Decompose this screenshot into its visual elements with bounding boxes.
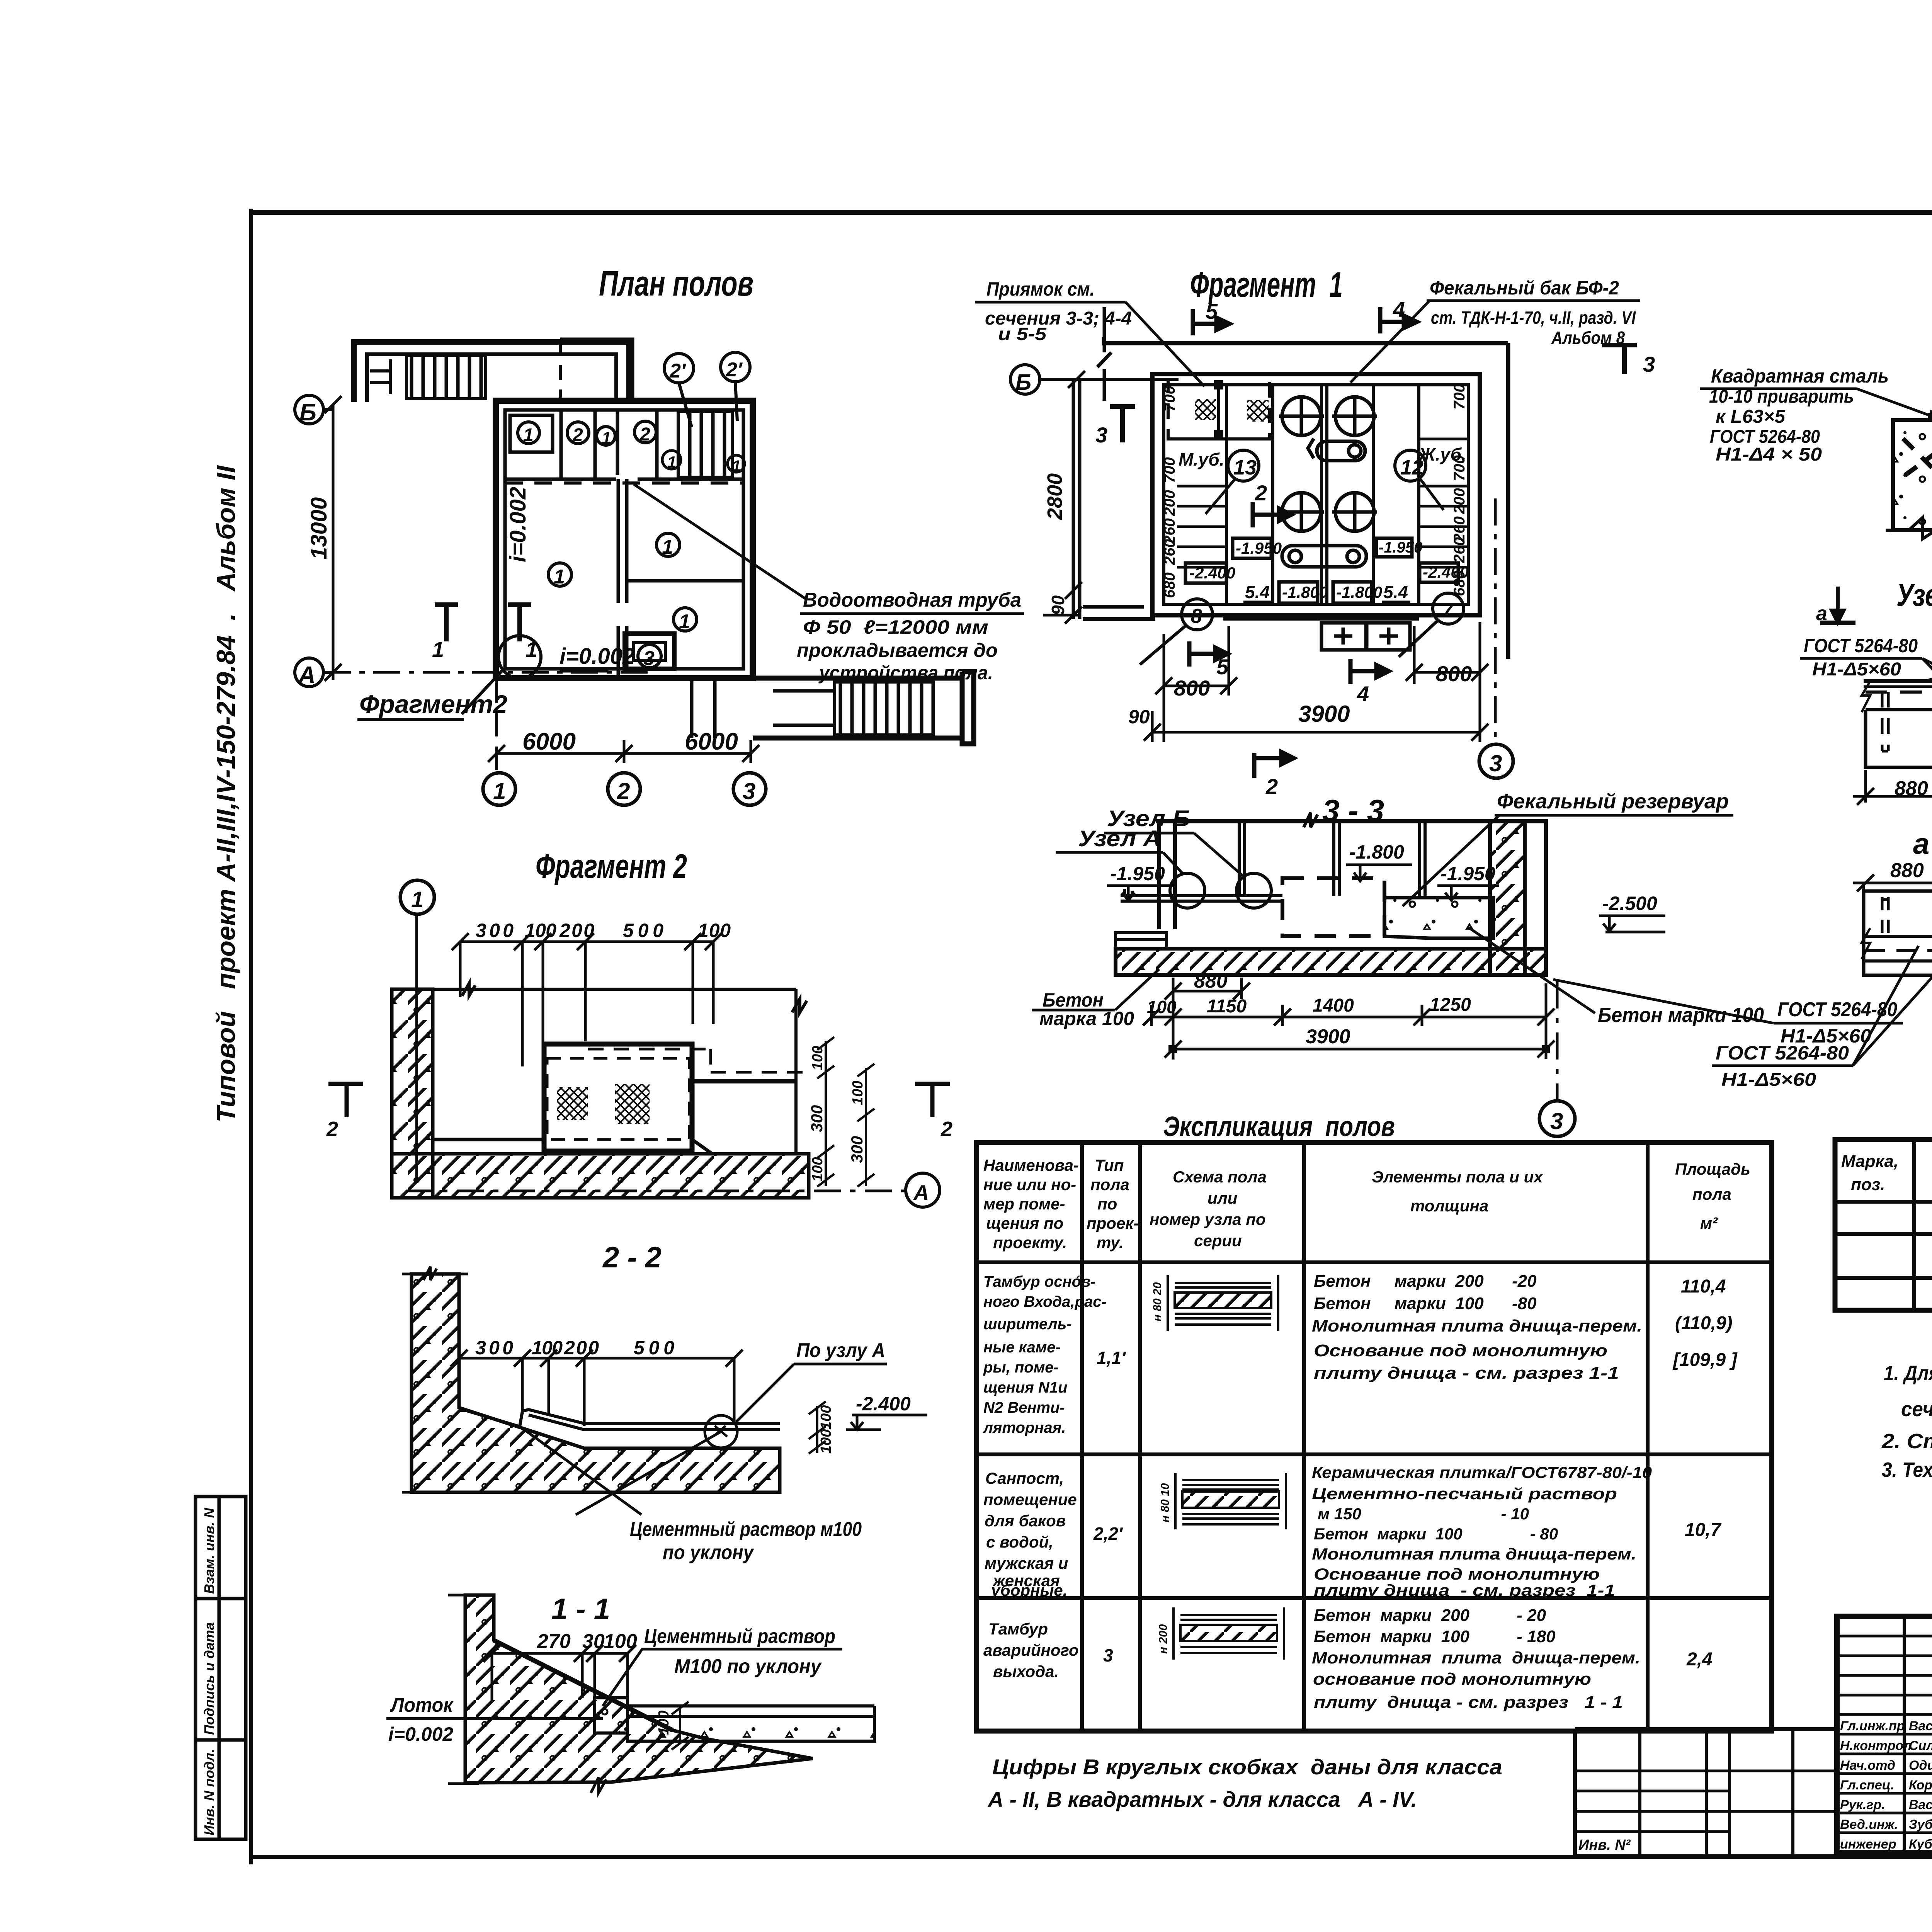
3-3 axis circle 3 xyxy=(1556,981,1559,1100)
svg-text:мужская и: мужская и xyxy=(985,1554,1068,1572)
svg-text:Фекальный резервуар: Фекальный резервуар xyxy=(1497,790,1729,813)
svg-text:N2 Венти-: N2 Венти- xyxy=(983,1399,1065,1416)
axis circle 1 fragment2 xyxy=(400,880,434,914)
left building wall xyxy=(1073,379,1080,619)
svg-text:Тамбур осно́в-: Тамбур осно́в- xyxy=(983,1273,1096,1290)
svg-text:i=0.002: i=0.002 xyxy=(505,487,531,562)
pit dashed box xyxy=(547,1058,689,1139)
pit divider xyxy=(1217,382,1220,437)
svg-text:н 80 20: н 80 20 xyxy=(1151,1282,1164,1321)
right horizontal partition xyxy=(627,579,743,583)
uzel A circle 3-3 xyxy=(1170,873,1205,908)
svg-text:100: 100 xyxy=(656,1711,672,1735)
svg-text:Гл.инж.пр: Гл.инж.пр xyxy=(1840,1719,1905,1733)
pit dashed rect xyxy=(1168,378,1270,439)
svg-text:1: 1 xyxy=(554,566,565,588)
svg-text:инженер: инженер xyxy=(1840,1837,1896,1852)
svg-text:по: по xyxy=(1097,1195,1117,1213)
level box -1.800 b xyxy=(1333,582,1372,603)
svg-text:Одинаков: Одинаков xyxy=(1909,1758,1932,1773)
fragment left dim 2800 xyxy=(1043,371,1085,624)
axis B line fragment xyxy=(1040,378,1179,381)
svg-text:щения N1и: щения N1и xyxy=(983,1379,1067,1396)
svg-text:1150: 1150 xyxy=(1207,996,1247,1017)
1-1 curb xyxy=(595,1698,628,1733)
svg-text:2: 2 xyxy=(1255,481,1267,505)
svg-text:ГОСТ 5264-80: ГОСТ 5264-80 xyxy=(1804,635,1918,656)
stall dividers left strip xyxy=(1177,439,1226,567)
svg-text:м²: м² xyxy=(1700,1214,1718,1232)
svg-text:3: 3 xyxy=(743,778,755,804)
section mark 1 left xyxy=(435,605,458,641)
inner partitions verticals xyxy=(1226,385,1419,604)
svg-text:3: 3 xyxy=(1095,423,1107,447)
svg-text:2′: 2′ xyxy=(669,360,687,382)
pit hatch patch 2 xyxy=(1247,400,1269,422)
svg-text:Инв. N подл.: Инв. N подл. xyxy=(201,1749,217,1835)
svg-text:ст. ТДК-Н-1-70, ч.II, разд. VI: ст. ТДК-Н-1-70, ч.II, разд. VI xyxy=(1431,308,1636,328)
svg-text:Фрагмент 1: Фрагмент 1 xyxy=(1190,265,1343,304)
svg-text:700: 700 xyxy=(1161,386,1178,412)
svg-text:ного Входа,рас-: ного Входа,рас- xyxy=(983,1293,1107,1310)
svg-text:1′: 1′ xyxy=(732,457,745,474)
svg-text:Фрагмент 2: Фрагмент 2 xyxy=(536,847,687,885)
svg-text:2,4: 2,4 xyxy=(1686,1649,1713,1670)
axis circle B xyxy=(295,395,333,424)
svg-text:-1.950: -1.950 xyxy=(1236,539,1282,557)
svg-text:1400: 1400 xyxy=(1313,995,1354,1016)
po uzlu A circle xyxy=(705,1415,737,1448)
svg-text:серии: серии xyxy=(1194,1231,1242,1250)
leaders cement 2-2 xyxy=(522,1428,721,1515)
svg-text:и 5-5: и 5-5 xyxy=(998,324,1047,344)
svg-text:Тамбур: Тамбур xyxy=(988,1620,1048,1638)
svg-text:Кубышкина: Кубышкина xyxy=(1909,1837,1932,1852)
svg-text:2800: 2800 xyxy=(1043,473,1066,520)
svg-text:Монолитная плита днища-перем: Монолитная плита днища-перем. xyxy=(1312,1648,1640,1667)
pit grate 2 xyxy=(615,1084,650,1124)
plan stairs top right xyxy=(678,412,732,477)
level box -2.400 left xyxy=(1185,563,1226,583)
svg-text:-1.800: -1.800 xyxy=(1349,841,1404,863)
eksplikaciya row1 col1 xyxy=(983,1273,1107,1436)
svg-text:щения по: щения по xyxy=(986,1214,1063,1232)
svg-text:Бетон марки 100 - 1: Бетон марки 100 - 180 xyxy=(1314,1627,1556,1646)
fragment2 left wall hatched xyxy=(392,989,433,1198)
svg-text:Керамическая плитка/ГОСТ6787-8: Керамическая плитка/ГОСТ6787-80/-10 xyxy=(1312,1463,1652,1481)
svg-text:-1.800: -1.800 xyxy=(1336,583,1382,601)
svg-text:(110,9): (110,9) xyxy=(1675,1313,1733,1333)
svg-text:аварийного: аварийного xyxy=(983,1641,1079,1659)
svg-text:100: 100 xyxy=(850,1081,866,1105)
level box -1.800 a xyxy=(1279,582,1318,603)
svg-text:уборные.: уборные. xyxy=(990,1581,1067,1599)
floor edge lines xyxy=(433,1139,712,1154)
top band room circles xyxy=(518,421,656,445)
svg-text:Бетон марки 100: Бетон марки 100 - 80 xyxy=(1314,1525,1558,1543)
svg-text:для баков: для баков xyxy=(985,1512,1066,1530)
upper tambour outline xyxy=(354,342,629,402)
square bar xyxy=(1930,410,1932,420)
svg-text:Цифры В круглых скобках даны: Цифры В круглых скобках даны для класса xyxy=(992,1755,1502,1779)
3-3 top wall line xyxy=(1156,813,1546,929)
svg-text:2,2′: 2,2′ xyxy=(1093,1524,1123,1544)
fragment2 right dim chain 1 xyxy=(817,1037,874,1187)
signature rows xyxy=(1840,1719,1932,1852)
svg-text:1. Для типов полов 1′, 2′: 1. Для типов полов 1′, 2′ толщину слоя б… xyxy=(1884,1362,1932,1385)
svg-text:основание под монолитную: основание под монолитную xyxy=(1313,1670,1591,1689)
1-1 break marks xyxy=(448,1595,606,1793)
svg-text:а - а: а - а xyxy=(1913,828,1932,861)
svg-text:Васильев: Васильев xyxy=(1909,1719,1932,1733)
main outer wall xyxy=(496,401,753,678)
section flag 3 right xyxy=(1602,345,1637,374)
svg-text:5.4: 5.4 xyxy=(1245,582,1270,602)
top cells partition row xyxy=(505,478,743,481)
svg-text:По узлу А: По узлу А xyxy=(796,1339,885,1362)
svg-text:по уклону: по уклону xyxy=(663,1541,755,1564)
svg-text:4: 4 xyxy=(1393,297,1405,321)
svg-text:Зубова: Зубова xyxy=(1909,1817,1932,1832)
svg-text:Н1-Δ5×60: Н1-Δ5×60 xyxy=(1781,1025,1871,1047)
svg-text:-1.950: -1.950 xyxy=(1379,539,1422,556)
svg-text:Узел Б: Узел Б xyxy=(1896,578,1932,613)
svg-text:1250: 1250 xyxy=(1430,995,1471,1015)
eksplikaciya row3 col1 xyxy=(983,1620,1079,1680)
leaders GOST uzel B xyxy=(1922,658,1932,677)
svg-text:1: 1 xyxy=(411,887,423,912)
svg-text:с водой,: с водой, xyxy=(986,1533,1053,1551)
frame left border line xyxy=(249,209,253,1864)
section mark 2 right fragment2 xyxy=(915,1084,950,1117)
1-1 right slab xyxy=(628,1716,874,1741)
svg-text:13000: 13000 xyxy=(306,497,332,560)
svg-text:i=0.002: i=0.002 xyxy=(388,1723,453,1745)
uzel B angle legs dashed xyxy=(1882,692,1932,751)
eksplikaciya row1 scheme xyxy=(1168,1275,1278,1331)
svg-text:100: 100 xyxy=(698,920,731,941)
svg-text:А: А xyxy=(913,1180,929,1205)
eksplikaciya row2 col1 xyxy=(983,1469,1077,1599)
svg-text:проек-: проек- xyxy=(1087,1214,1139,1232)
svg-text:Цементный раствор: Цементный раствор xyxy=(644,1625,835,1648)
svg-text:10,7: 10,7 xyxy=(1685,1520,1722,1540)
svg-text:Бетон марки 200 -20: Бетон марки 200 -20 xyxy=(1314,1272,1537,1291)
svg-text:200: 200 xyxy=(564,1337,599,1359)
svg-text:2: 2 xyxy=(326,1117,338,1141)
svg-text:6000: 6000 xyxy=(685,728,738,755)
upper tambour stairs xyxy=(406,355,486,399)
svg-text:Экспликация полов: Экспликация полов xyxy=(1163,1111,1395,1142)
section mark 2 left fragment2 xyxy=(328,1084,363,1117)
svg-text:10-10 приварить: 10-10 приварить xyxy=(1709,386,1854,407)
svg-text:200: 200 xyxy=(1161,490,1178,516)
section flag 4 bottom xyxy=(1350,659,1389,684)
eksplikaciya row3 scheme xyxy=(1173,1607,1284,1660)
svg-text:Фрагмент2: Фрагмент2 xyxy=(359,690,507,718)
2-2 concrete mass hatched xyxy=(412,1274,780,1492)
svg-text:2: 2 xyxy=(1265,774,1278,799)
svg-text:-1.950: -1.950 xyxy=(1440,863,1495,884)
left margin attribute table xyxy=(196,1497,246,1839)
svg-text:100: 100 xyxy=(810,1046,826,1070)
svg-text:-1.800: -1.800 xyxy=(1282,583,1328,601)
svg-text:3: 3 xyxy=(1643,352,1655,376)
svg-text:Н1-Δ5×60: Н1-Δ5×60 xyxy=(1721,1070,1816,1090)
svg-text:700: 700 xyxy=(1451,455,1468,481)
svg-text:5.4: 5.4 xyxy=(1383,582,1408,602)
svg-text:13: 13 xyxy=(1233,456,1257,479)
svg-text:ляторная.: ляторная. xyxy=(983,1419,1066,1436)
svg-text:2 - 2: 2 - 2 xyxy=(602,1241,662,1274)
lower tambour stairs xyxy=(835,682,933,735)
svg-text:680: 680 xyxy=(1451,570,1468,596)
specifikaciya header texts xyxy=(1841,1152,1932,1194)
sanitary block outer walls xyxy=(1152,374,1480,615)
svg-text:100: 100 xyxy=(818,1405,834,1430)
level box -1.950 left xyxy=(1233,538,1271,558)
svg-text:2: 2 xyxy=(572,425,583,446)
svg-text:ГОСТ 5264-80: ГОСТ 5264-80 xyxy=(1777,998,1897,1021)
svg-text:ные каме-: ные каме- xyxy=(983,1339,1061,1356)
svg-text:Типовой проект А-II,III,IV-1: Типовой проект А-II,III,IV-150-279.84 . … xyxy=(211,465,241,1122)
axis 3 dashdot xyxy=(1494,498,1497,744)
3-3 left floor edge xyxy=(1116,933,1167,949)
svg-text:пола: пола xyxy=(1090,1175,1129,1194)
svg-text:н 200: н 200 xyxy=(1157,1624,1170,1654)
svg-text:3: 3 xyxy=(1103,1645,1113,1665)
svg-text:выхода.: выхода. xyxy=(993,1662,1059,1680)
fragment1 top boundary wall xyxy=(1040,337,1508,659)
uzel B box xyxy=(1866,710,1932,767)
3-3 floor slab xyxy=(1116,949,1546,975)
svg-text:Схема пола: Схема пола xyxy=(1173,1168,1267,1186)
uzel B circle 3-3 xyxy=(1236,873,1271,908)
section flag 5 bottom xyxy=(1189,641,1228,667)
upper tambour cell xyxy=(370,359,390,394)
pier anchor dashes xyxy=(1903,439,1932,483)
a-a angle legs dashed xyxy=(1882,897,1932,933)
svg-text:Нач.отд: Нач.отд xyxy=(1840,1758,1895,1773)
svg-text:Б: Б xyxy=(299,399,316,426)
svg-text:Наименова-: Наименова- xyxy=(983,1156,1079,1174)
specifikaciya table grid xyxy=(1835,1139,1932,1310)
small room circles 1' xyxy=(662,451,745,472)
svg-text:6000: 6000 xyxy=(522,728,576,755)
uzel A pier concrete xyxy=(1893,420,1932,530)
svg-text:Санпост,: Санпост, xyxy=(985,1469,1064,1487)
svg-text:Н.контрол: Н.контрол xyxy=(1840,1738,1912,1753)
svg-text:3: 3 xyxy=(643,647,655,670)
cell walls verticals xyxy=(561,410,657,479)
svg-text:2: 2 xyxy=(617,778,630,804)
section mark a left xyxy=(1820,587,1855,623)
section flag 4 top xyxy=(1380,307,1417,333)
room circle 1 left xyxy=(548,563,571,586)
svg-text:3: 3 xyxy=(1550,1108,1563,1134)
eksplikaciya row2 scheme xyxy=(1175,1473,1286,1529)
svg-text:270: 270 xyxy=(537,1630,571,1653)
axis circle B fragment xyxy=(1010,365,1040,394)
svg-text:А - II, В квадратных - для кла: А - II, В квадратных - для класса А - IV… xyxy=(987,1787,1417,1811)
svg-text:1: 1 xyxy=(662,536,673,558)
fragment2 bottom wall hatched xyxy=(392,1154,809,1198)
svg-text:3900: 3900 xyxy=(1298,701,1350,727)
axis circle 2 xyxy=(608,773,640,805)
leader vodootvodnaya truba xyxy=(634,484,808,600)
svg-text:Элементы пола и их: Элементы пола и их xyxy=(1372,1168,1543,1186)
svg-text:А: А xyxy=(298,662,316,689)
leader from 13 xyxy=(1206,479,1235,514)
2-2 floor profile xyxy=(459,1408,780,1430)
svg-text:к L63×5: к L63×5 xyxy=(1716,406,1786,427)
title block grid xyxy=(1837,1616,1932,1852)
svg-text:1: 1 xyxy=(432,637,444,662)
fragment 2 indicator circle xyxy=(462,636,541,714)
svg-text:-2.400: -2.400 xyxy=(856,1393,911,1415)
svg-text:500: 500 xyxy=(623,920,663,941)
channel dashed hidden lines xyxy=(588,1049,809,1072)
leader fekalny bak xyxy=(1350,301,1430,383)
frame bottom border line xyxy=(249,1855,1932,1859)
axis circle 3 fragment xyxy=(1479,744,1513,778)
1-1 channel line xyxy=(494,1640,673,1730)
room circle 1 right lower xyxy=(673,608,697,631)
svg-text:М100 по уклону: М100 по уклону xyxy=(674,1655,822,1678)
svg-text:Бетон марки 100 -80: Бетон марки 100 -80 xyxy=(1314,1294,1537,1313)
3-3 reservoir dashed box xyxy=(1282,878,1384,936)
svg-text:300: 300 xyxy=(848,1136,866,1163)
svg-text:5: 5 xyxy=(1206,299,1218,323)
svg-text:[109,9 ]: [109,9 ] xyxy=(1672,1350,1738,1370)
svg-text:ние или но-: ние или но- xyxy=(983,1175,1076,1194)
svg-text:м 150: м 150 - 10 xyxy=(1318,1505,1529,1523)
svg-text:260: 260 xyxy=(1161,539,1178,565)
leader priyamok xyxy=(1126,302,1204,386)
axis circle A xyxy=(295,658,333,687)
svg-text:ту.: ту. xyxy=(1097,1233,1124,1252)
pit bold box xyxy=(544,1044,692,1151)
room circle 1 right upper xyxy=(656,533,680,556)
svg-text:200: 200 xyxy=(1451,488,1468,514)
svg-text:плиту днища - см. разрез 1-1: плиту днища - см. разрез 1-1 xyxy=(1314,1581,1615,1599)
svg-text:Основание под монолитную: Основание под монолитную xyxy=(1314,1341,1607,1360)
svg-text:пола: пола xyxy=(1692,1185,1731,1203)
pit grate 1 xyxy=(557,1087,588,1120)
svg-text:Основание под монолитную: Основание под монолитную xyxy=(1314,1565,1600,1583)
svg-text:ширитель-: ширитель- xyxy=(983,1316,1072,1333)
svg-text:номер узла по: номер узла по xyxy=(1150,1210,1266,1228)
frame top border line xyxy=(249,210,1932,215)
svg-text:Инв. N²: Инв. N² xyxy=(1578,1837,1631,1853)
svg-text:12: 12 xyxy=(1400,456,1423,479)
section flag 5 top xyxy=(1193,309,1230,335)
svg-text:800: 800 xyxy=(1174,676,1210,700)
level box -2.400 right xyxy=(1420,563,1458,582)
svg-text:2: 2 xyxy=(940,1117,952,1141)
svg-text:260: 260 xyxy=(1451,537,1468,563)
svg-text:Силаева: Силаева xyxy=(1909,1738,1932,1753)
eksplikaciya table grid xyxy=(976,1143,1772,1731)
svg-text:i=0.002: i=0.002 xyxy=(560,644,635,669)
svg-text:500: 500 xyxy=(634,1337,674,1359)
bottom dim line 6000 6000 xyxy=(488,680,759,773)
svg-text:Васильева: Васильева xyxy=(1909,1798,1932,1812)
svg-text:Лоток: Лоток xyxy=(389,1694,454,1716)
upper right vestibule xyxy=(560,340,632,401)
3-3 right concrete block xyxy=(1384,898,1493,938)
svg-text:-1.950: -1.950 xyxy=(1110,863,1165,884)
lower tambour outline xyxy=(753,672,974,744)
svg-text:Фекальный бак БФ-2: Фекальный бак БФ-2 xyxy=(1430,277,1619,299)
svg-text:3: 3 xyxy=(1489,750,1502,776)
svg-text:устройства пола.: устройства пола. xyxy=(818,662,993,684)
svg-text:-2.500: -2.500 xyxy=(1602,893,1657,914)
svg-text:880: 880 xyxy=(1890,859,1924,882)
svg-text:880: 880 xyxy=(1194,970,1228,992)
svg-text:Цементный раствор м100: Цементный раствор м100 xyxy=(630,1518,862,1541)
svg-text:плиту днища - см. разрез 1: плиту днища - см. разрез 1 - 1 xyxy=(1314,1693,1623,1712)
svg-text:мер поме-: мер поме- xyxy=(983,1195,1065,1213)
bench bar xyxy=(1223,614,1419,621)
toilet fixtures circles xyxy=(1279,397,1377,531)
svg-text:Н1-Δ5×60: Н1-Δ5×60 xyxy=(1812,659,1901,680)
svg-text:или: или xyxy=(1207,1189,1237,1207)
pit hatch patch 1 xyxy=(1195,399,1216,420)
eksplikaciya row2 col4 xyxy=(1312,1463,1652,1599)
svg-text:толщина: толщина xyxy=(1410,1197,1488,1215)
svg-text:Монолитная плита днища-перем.: Монолитная плита днища-перем. xyxy=(1312,1316,1642,1335)
circle 7 xyxy=(1399,593,1464,657)
svg-text:Цементно-песчаный раствор: Цементно-песчаный раствор xyxy=(1312,1485,1617,1503)
vertical dim 13000 xyxy=(325,396,342,681)
svg-text:Квадратная сталь: Квадратная сталь xyxy=(1711,365,1889,387)
left attribute table xyxy=(1575,1729,1837,1856)
svg-text:5: 5 xyxy=(1216,655,1229,679)
svg-text:1: 1 xyxy=(523,425,534,446)
svg-text:100: 100 xyxy=(818,1429,834,1454)
1-1 dim 100 rotated xyxy=(672,1702,689,1750)
pier break bottom xyxy=(1886,518,1932,539)
urinal lower xyxy=(1282,546,1366,567)
svg-text:1: 1 xyxy=(493,778,506,804)
axis circle A fragment2 xyxy=(406,1190,906,1192)
axis 1 line xyxy=(415,914,418,1181)
svg-text:н 80 10: н 80 10 xyxy=(1159,1483,1172,1522)
leader kvadratnaya xyxy=(1857,389,1932,417)
room circle 13 xyxy=(1228,450,1259,481)
svg-text:сечения.: сечения. xyxy=(1901,1398,1932,1421)
svg-text:100: 100 xyxy=(525,920,556,941)
2-2 wall top break xyxy=(402,1267,468,1492)
svg-text:Приямок см.: Приямок см. xyxy=(986,278,1095,300)
eksplikaciya header texts xyxy=(983,1156,1750,1252)
dashed pipe line xyxy=(505,481,743,485)
uzel B dim 880 xyxy=(1853,770,1932,827)
2-2 right dims rotated xyxy=(809,1401,826,1454)
section line 2 top with break xyxy=(1097,307,1111,401)
a-a box xyxy=(1862,891,1932,975)
axis A dash-dot xyxy=(324,671,653,674)
svg-text:1′: 1′ xyxy=(667,453,681,471)
stall dividers right strip xyxy=(1419,439,1468,567)
svg-text:110,4: 110,4 xyxy=(1681,1276,1726,1297)
leader from 12 xyxy=(1420,479,1444,510)
svg-text:проекту.: проекту. xyxy=(993,1233,1067,1252)
svg-text:880: 880 xyxy=(1895,777,1928,800)
svg-text:300: 300 xyxy=(476,920,514,941)
3-3 right hatched wall xyxy=(1490,821,1525,975)
